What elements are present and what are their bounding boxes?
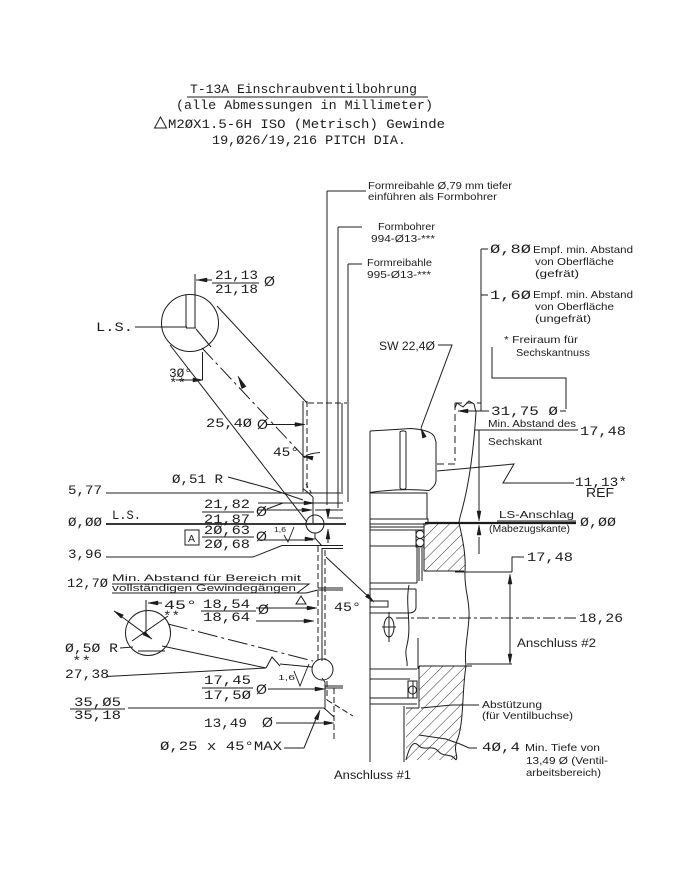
svg-text:25,4Ø: 25,4Ø [206, 416, 252, 431]
svg-text:Formreibahle: Formreibahle [367, 257, 432, 269]
svg-text:Empf. min. Abstand: Empf. min. Abstand [533, 244, 633, 256]
svg-text:17,48: 17,48 [527, 550, 573, 565]
svg-text:Ø,8Ø: Ø,8Ø [490, 242, 531, 257]
svg-text:Ø,ØØ: Ø,ØØ [580, 515, 616, 530]
svg-text:Ø: Ø [256, 528, 267, 544]
svg-text:1,6Ø: 1,6Ø [490, 288, 531, 303]
svg-text:von Oberfläche: von Oberfläche [535, 301, 614, 313]
svg-text:L.S.: L.S. [112, 508, 141, 523]
svg-text:(alle Abmessungen in Millimete: (alle Abmessungen in Millimeter) [176, 98, 433, 113]
svg-text:Anschluss #1: Anschluss #1 [334, 770, 411, 782]
svg-text:T-13A Einschraubventilbohrung: T-13A Einschraubventilbohrung [190, 82, 417, 97]
svg-text:L.S.: L.S. [96, 320, 133, 335]
svg-text:Sechskantnuss: Sechskantnuss [516, 347, 590, 359]
svg-text:Sechskant: Sechskant [488, 436, 542, 448]
svg-text:Ø,25 x 45°MAX: Ø,25 x 45°MAX [160, 739, 282, 754]
svg-text:45°: 45° [334, 600, 361, 615]
svg-text:21,13: 21,13 [215, 268, 258, 283]
svg-text:einführen als Formbohrer: einführen als Formbohrer [368, 191, 498, 203]
svg-text:(für Ventilbuchse): (für Ventilbuchse) [482, 710, 573, 722]
svg-text:Empf. min. Abstand: Empf. min. Abstand [533, 289, 633, 301]
svg-text:vollständigen Gewindegängen: vollständigen Gewindegängen [112, 583, 296, 593]
svg-text:17,5Ø: 17,5Ø [204, 688, 251, 703]
svg-text:Ø: Ø [258, 601, 269, 617]
svg-text:Ø: Ø [262, 714, 273, 730]
svg-text:18,26: 18,26 [579, 611, 623, 626]
svg-text:Ø: Ø [256, 503, 267, 519]
svg-text:Ø: Ø [257, 416, 268, 432]
svg-text:31,75 Ø: 31,75 Ø [491, 404, 558, 419]
svg-text:Ø: Ø [264, 273, 275, 289]
svg-text:Min. Abstand des: Min. Abstand des [488, 418, 576, 430]
svg-text:4Ø,4: 4Ø,4 [482, 740, 520, 755]
svg-text:3,96: 3,96 [68, 547, 102, 562]
svg-text:2Ø,63: 2Ø,63 [204, 523, 250, 538]
svg-text:994-Ø13-***: 994-Ø13-*** [371, 233, 435, 245]
svg-text:A: A [188, 533, 195, 545]
svg-text:21,18: 21,18 [215, 282, 258, 297]
svg-text:* Freiraum für: * Freiraum für [504, 334, 579, 346]
svg-text:12,7Ø: 12,7Ø [67, 576, 108, 591]
svg-text:**: ** [163, 609, 180, 624]
svg-text:21,82: 21,82 [204, 497, 250, 512]
svg-text:1,6: 1,6 [274, 525, 286, 534]
svg-text:18,64: 18,64 [203, 610, 250, 625]
svg-text:Ø: Ø [256, 681, 267, 697]
svg-text:von Oberfläche: von Oberfläche [535, 256, 614, 268]
svg-text:27,38: 27,38 [65, 667, 109, 682]
svg-text:SW 22,4Ø: SW 22,4Ø [379, 341, 435, 353]
svg-text:Ø,ØØ: Ø,ØØ [68, 515, 102, 530]
svg-text:35,18: 35,18 [74, 708, 121, 723]
svg-text:Formbohrer: Formbohrer [378, 221, 436, 233]
svg-text:995-Ø13-***: 995-Ø13-*** [367, 269, 431, 281]
svg-text:1,6: 1,6 [278, 673, 295, 682]
svg-text:arbeitsbereich): arbeitsbereich) [526, 767, 601, 779]
svg-text:13,49 Ø (Ventil-: 13,49 Ø (Ventil- [526, 755, 609, 767]
svg-text:LS-Anschlag: LS-Anschlag [499, 509, 574, 521]
svg-text:REF: REF [586, 485, 614, 500]
svg-text:Min. Abstand für Bereich mit: Min. Abstand für Bereich mit [112, 573, 302, 583]
svg-text:17,48: 17,48 [580, 424, 626, 439]
svg-text:17,45: 17,45 [204, 673, 251, 688]
svg-text:13,49: 13,49 [204, 716, 247, 731]
svg-text:5,77: 5,77 [68, 483, 102, 498]
svg-text:Min. Tiefe von: Min. Tiefe von [525, 742, 600, 754]
svg-text:M2ØX1.5-6H ISO (Metrisch) Gewi: M2ØX1.5-6H ISO (Metrisch) Gewinde [168, 117, 445, 132]
svg-text:**: ** [169, 376, 186, 391]
svg-text:Anschluss #2: Anschluss #2 [517, 638, 596, 650]
svg-text:(Mabezugskante): (Mabezugskante) [489, 523, 570, 535]
svg-text:(gefrät): (gefrät) [535, 268, 579, 280]
svg-text:45°: 45° [273, 445, 299, 460]
svg-text:(ungefrät): (ungefrät) [535, 313, 591, 325]
svg-text:19,Ø26/19,216 PITCH DIA.: 19,Ø26/19,216 PITCH DIA. [212, 133, 406, 148]
svg-text:2Ø,68: 2Ø,68 [204, 537, 250, 552]
svg-text:Ø,51 R: Ø,51 R [172, 472, 223, 487]
